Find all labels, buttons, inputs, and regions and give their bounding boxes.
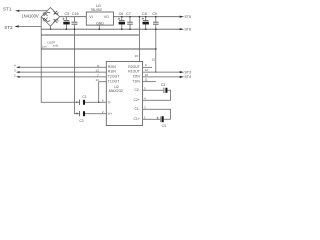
node ST3 bbox=[184, 70, 191, 74]
wire C2 to V+ bbox=[85, 113, 106, 115]
svg-text:C7: C7 bbox=[126, 12, 131, 16]
svg-text:C16: C16 bbox=[72, 12, 79, 16]
capacitor C2 bbox=[79, 111, 81, 116]
node ST2 bbox=[4, 25, 13, 30]
label 1N4100V bbox=[22, 14, 39, 19]
wire R1OUT to ST3 bbox=[143, 71, 180, 73]
svg-text:ST3: ST3 bbox=[184, 70, 191, 74]
svg-text:C2: C2 bbox=[79, 119, 83, 123]
svg-text:R1OUT: R1OUT bbox=[128, 70, 140, 74]
wire AC2 vertical / GND drop to C1 bbox=[41, 17, 79, 103]
capacitor C3 loop bbox=[161, 83, 165, 87]
node connector pin 2 arrow bbox=[14, 73, 16, 77]
svg-text:R2IN: R2IN bbox=[108, 65, 116, 69]
pin numbers left bbox=[95, 64, 103, 114]
svg-text:xxIx: xxIx bbox=[53, 43, 59, 47]
svg-text:Lxx: Lxx bbox=[42, 44, 47, 48]
svg-text:R2OUT: R2OUT bbox=[128, 65, 140, 69]
IC U2 MAX232 box bbox=[106, 62, 142, 126]
svg-text:V-: V- bbox=[108, 101, 112, 105]
node connector pin 4 arrow bbox=[14, 64, 16, 68]
svg-text:T2IN: T2IN bbox=[132, 75, 140, 79]
node connector pin 3 arrow bbox=[14, 69, 16, 73]
capacitor C8 bbox=[142, 12, 147, 16]
wire GND long line bbox=[41, 48, 156, 50]
svg-text:T1OUT: T1OUT bbox=[108, 79, 120, 83]
diode D2 (NE edge) bbox=[53, 11, 58, 15]
node ST6 bbox=[184, 28, 191, 32]
wire ST1 to bridge bbox=[19, 10, 47, 12]
pin 16 bbox=[135, 54, 139, 58]
node ST4 bbox=[184, 75, 191, 79]
svg-text:3: 3 bbox=[14, 69, 16, 73]
svg-text:C4: C4 bbox=[162, 124, 166, 128]
arrowhead ST1 bbox=[15, 10, 19, 12]
svg-text:16: 16 bbox=[135, 54, 139, 58]
arrowhead ST6 bbox=[180, 28, 184, 30]
svg-text:10: 10 bbox=[145, 73, 149, 77]
wire line B bbox=[41, 34, 139, 36]
wire +5V rail left bbox=[60, 16, 87, 18]
svg-text:14: 14 bbox=[95, 78, 99, 82]
wire +5V rail right bbox=[113, 16, 180, 18]
svg-text:GND: GND bbox=[96, 21, 104, 25]
svg-text:VO: VO bbox=[104, 15, 109, 19]
wire C1 to V- bbox=[85, 101, 106, 103]
svg-text:4: 4 bbox=[14, 64, 16, 68]
diode D4 (SE edge) bbox=[53, 19, 58, 23]
svg-text:VI: VI bbox=[89, 15, 92, 19]
svg-text:12: 12 bbox=[145, 68, 149, 72]
svg-text:C1-: C1- bbox=[134, 107, 139, 111]
bridge rectifier diamond bbox=[41, 8, 59, 27]
node ST5 bbox=[184, 15, 191, 19]
svg-text:C5: C5 bbox=[65, 12, 70, 16]
node ST1 bbox=[3, 6, 12, 11]
svg-text:C2-: C2- bbox=[134, 88, 139, 92]
pin 15 bbox=[152, 57, 156, 61]
svg-text:C1: C1 bbox=[82, 95, 86, 99]
wire ST2 to corner bbox=[18, 25, 41, 27]
wire GND bus A bbox=[41, 28, 180, 30]
svg-text:ST4: ST4 bbox=[184, 75, 191, 79]
wire R2OUT pin9 stub to GND vertical bbox=[143, 66, 152, 68]
svg-text:78L05Z: 78L05Z bbox=[91, 8, 103, 12]
svg-text:ST5: ST5 bbox=[184, 15, 191, 19]
arrowhead ST2 bbox=[15, 25, 19, 27]
wire VCC vertical to IC pin 16 bbox=[138, 17, 140, 62]
diode D1 (NW edge) bbox=[43, 12, 50, 16]
svg-text:C6: C6 bbox=[119, 12, 124, 16]
svg-text:ST6: ST6 bbox=[184, 28, 191, 32]
capacitor C7 bbox=[126, 12, 131, 16]
svg-text:13: 13 bbox=[95, 69, 99, 73]
svg-text:11: 11 bbox=[145, 78, 148, 82]
svg-text:V+: V+ bbox=[108, 112, 112, 116]
voltage regulator U1 box bbox=[86, 12, 113, 25]
svg-text:C8: C8 bbox=[142, 12, 147, 16]
wire T1OUT jog to V- wire bbox=[99, 82, 107, 103]
wire bridge S output stub bbox=[49, 26, 51, 29]
svg-text:C1+: C1+ bbox=[133, 117, 139, 121]
wire T1IN pin11 stub bbox=[143, 81, 156, 83]
wire C16 branch down to C2 bbox=[75, 29, 80, 114]
svg-text:15: 15 bbox=[152, 57, 156, 61]
wire U1 GND lead bbox=[98, 25, 100, 29]
capacitor C16 bbox=[72, 12, 79, 16]
svg-text:MAX232: MAX232 bbox=[109, 89, 123, 93]
svg-text:1N4100V: 1N4100V bbox=[22, 14, 39, 19]
capacitor C4 loop bbox=[143, 109, 171, 119]
svg-text:C9: C9 bbox=[152, 12, 157, 16]
capacitor C6 bbox=[119, 12, 124, 16]
svg-text:ST1: ST1 bbox=[3, 6, 12, 11]
svg-text:9: 9 bbox=[145, 63, 147, 67]
svg-text:C2+: C2+ bbox=[133, 98, 139, 102]
arrowhead ST5 bbox=[180, 16, 184, 18]
svg-text:ST2: ST2 bbox=[4, 25, 13, 30]
svg-text:2: 2 bbox=[14, 73, 16, 77]
capacitor C5 bbox=[65, 12, 70, 16]
svg-text:T2OUT: T2OUT bbox=[108, 75, 120, 79]
svg-text:C3: C3 bbox=[161, 83, 165, 87]
net labels text bbox=[42, 40, 59, 48]
svg-text:T1IN: T1IN bbox=[132, 79, 140, 83]
wire T2IN to ST4 bbox=[143, 76, 180, 78]
pin numbers right bbox=[144, 63, 148, 119]
diode D3 (SW edge) bbox=[43, 18, 50, 22]
capacitor C1 bbox=[82, 95, 86, 99]
junction GND line end bbox=[155, 48, 157, 50]
wire GND vertical right bbox=[155, 29, 157, 72]
capacitor C9 bbox=[152, 12, 157, 16]
svg-text:R1IN: R1IN bbox=[108, 70, 116, 74]
